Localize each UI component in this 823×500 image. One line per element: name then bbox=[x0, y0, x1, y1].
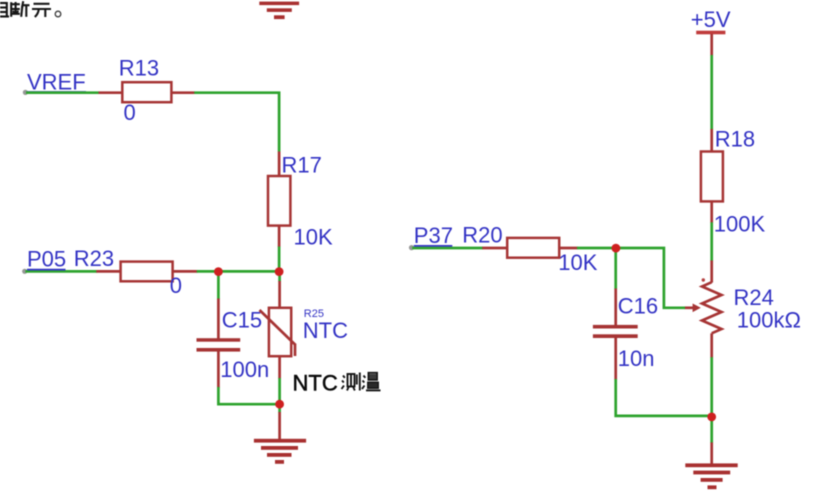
svg-text:100K: 100K bbox=[714, 212, 766, 237]
svg-text:C16: C16 bbox=[618, 294, 658, 319]
svg-text:0: 0 bbox=[170, 273, 182, 298]
svg-text:NTC: NTC bbox=[303, 318, 348, 343]
svg-text:NTC: NTC bbox=[293, 371, 338, 396]
svg-text:10K: 10K bbox=[558, 250, 597, 275]
svg-text:R13: R13 bbox=[119, 56, 159, 81]
svg-text:VREF: VREF bbox=[27, 69, 86, 94]
svg-text:R20: R20 bbox=[462, 222, 502, 247]
svg-text:R23: R23 bbox=[74, 246, 114, 271]
svg-text:100n: 100n bbox=[220, 357, 269, 382]
svg-text:P37: P37 bbox=[414, 223, 453, 248]
svg-text:100kΩ: 100kΩ bbox=[737, 307, 801, 332]
svg-text:+5V: +5V bbox=[691, 7, 731, 32]
svg-text:0: 0 bbox=[124, 100, 136, 125]
svg-text:10n: 10n bbox=[618, 346, 655, 371]
svg-text:C15: C15 bbox=[222, 308, 262, 333]
svg-text:R18: R18 bbox=[715, 127, 755, 152]
svg-text:10K: 10K bbox=[294, 225, 333, 250]
svg-text:R17: R17 bbox=[282, 153, 322, 178]
svg-text:P05: P05 bbox=[27, 247, 66, 272]
